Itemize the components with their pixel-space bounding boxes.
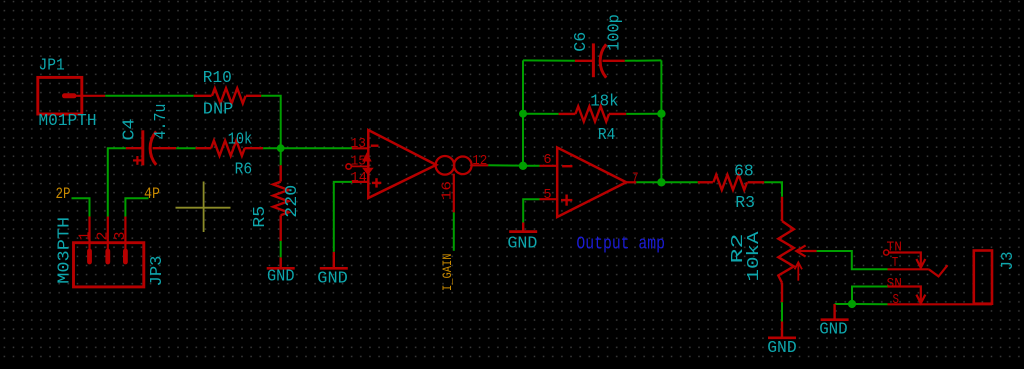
JP3 pin 3 stub	[123, 251, 128, 262]
wire pin16 to I_GAIN	[453, 212, 455, 250]
R2 body zigzag	[778, 221, 794, 283]
svg-text:GND: GND	[317, 269, 348, 288]
node R4 left junction	[519, 110, 527, 118]
R2 up arrow	[797, 265, 799, 281]
svg-text:JP1: JP1	[39, 57, 65, 76]
resistor R3 left lead	[698, 181, 713, 183]
svg-text:15: 15	[351, 154, 366, 170]
resistor R10 body	[212, 88, 246, 103]
wire U1 pin12 to node B	[488, 164, 523, 166]
node A junction	[277, 144, 285, 152]
U1 pin 16 lead	[453, 174, 455, 213]
U1 plus sign	[372, 182, 381, 184]
svg-text:JP3: JP3	[148, 256, 167, 287]
U1 pin 15 bubble	[346, 164, 351, 169]
wire 4P to JP3 pin3	[125, 198, 148, 216]
JP1 pin 1 lead	[74, 95, 105, 97]
wire R3 to R2	[764, 182, 782, 197]
J3 SN line	[888, 287, 921, 301]
resistor R5 top lead	[280, 165, 282, 181]
svg-text:S: S	[893, 293, 900, 308]
svg-text:2: 2	[95, 231, 112, 240]
resistor R6 right lead	[245, 147, 264, 149]
svg-text:10k: 10k	[228, 130, 253, 149]
U2 pin 6 lead	[540, 165, 558, 167]
GND pin R5	[280, 257, 282, 268]
svg-text:GND: GND	[507, 235, 537, 254]
svg-text:GND: GND	[767, 339, 797, 358]
U2 pin 5 lead	[540, 198, 558, 200]
svg-text:12: 12	[472, 153, 487, 169]
U1 minus sign	[371, 144, 379, 146]
svg-text:SN: SN	[887, 277, 902, 292]
op-amp U1 triangle	[368, 130, 436, 198]
GND pin U1+	[333, 252, 335, 268]
svg-text:5: 5	[543, 187, 551, 203]
svg-text:6: 6	[543, 152, 551, 168]
wire R5 to GND	[280, 241, 282, 258]
svg-text:4P: 4P	[144, 185, 160, 203]
svg-text:16: 16	[439, 181, 455, 200]
JP1 pin 1 stub	[65, 93, 75, 98]
svg-text:18k: 18k	[590, 93, 619, 112]
wire JP1 to R10	[105, 95, 194, 97]
svg-text:R3: R3	[735, 194, 755, 213]
svg-text:DNP: DNP	[203, 100, 234, 119]
resistor R4 body	[575, 106, 609, 121]
J3 SN arrowhead	[916, 295, 925, 304]
wire R2 to GND	[781, 302, 783, 321]
ground symbol R5	[267, 267, 295, 270]
capacitor C6 left lead	[575, 60, 594, 62]
wire node C to R3	[661, 181, 697, 183]
JP3 pin 2 stub	[105, 251, 110, 262]
svg-text:GND: GND	[819, 321, 848, 340]
GND pin U2+	[522, 223, 524, 232]
svg-text:4.7u: 4.7u	[152, 104, 171, 140]
wire R6 to node A	[263, 147, 281, 149]
svg-text:3: 3	[112, 231, 129, 240]
svg-text:J3: J3	[999, 252, 1018, 271]
resistor R10 left lead	[194, 95, 212, 97]
svg-text:100p: 100p	[605, 14, 624, 51]
GND pin R2	[781, 322, 783, 338]
wire U2 pin5 to GND	[523, 199, 539, 222]
J3 body rect	[974, 251, 992, 304]
U2 plus sign	[561, 199, 572, 201]
resistor R6 body	[211, 141, 245, 156]
J3 S line	[888, 303, 993, 305]
node R4 right junction	[657, 110, 665, 118]
U1 down arrow	[362, 168, 374, 176]
svg-text:68: 68	[734, 163, 754, 182]
node D junction	[848, 300, 856, 308]
wire C4 row to JP3 pin2	[108, 148, 126, 216]
JP3 pin 1 stub	[87, 251, 92, 262]
wire feedback left vertical	[522, 60, 524, 165]
R2 wiper arrow	[796, 245, 805, 256]
wire R4 right	[626, 113, 661, 115]
svg-text:Output amp: Output amp	[576, 233, 665, 254]
wire R4 left	[523, 113, 559, 115]
wire feedback right vertical	[660, 60, 662, 182]
J3 TN line	[889, 253, 921, 267]
wire R10 right corner	[261, 96, 281, 148]
resistor R10 right lead	[246, 95, 261, 97]
R2 bottom lead	[781, 283, 783, 302]
jumper circle right	[454, 157, 472, 175]
wire S branch	[852, 303, 888, 305]
connector JP3 box	[74, 243, 144, 287]
U1 pin 13 lead	[352, 147, 368, 149]
wire 2P to JP3 pin1	[72, 198, 90, 216]
svg-text:M01PTH: M01PTH	[39, 112, 97, 131]
J3 tip contact	[929, 265, 948, 276]
connector JP1 box	[38, 77, 82, 114]
wire node A to U1 pin13	[281, 147, 352, 149]
svg-text:2P: 2P	[56, 185, 71, 203]
svg-text:C4: C4	[120, 119, 139, 141]
svg-text:R6: R6	[235, 161, 253, 180]
resistor R3 body	[713, 175, 747, 190]
wire GND branch	[835, 303, 852, 305]
svg-text:R4: R4	[598, 126, 616, 145]
U1 pin 12 lead	[472, 164, 489, 166]
svg-text:I_GAIN: I_GAIN	[440, 254, 455, 292]
svg-text:10kA: 10kA	[745, 231, 764, 282]
resistor R6 left lead	[196, 147, 212, 149]
wire U2 pin7 to node C	[636, 181, 661, 183]
svg-text:13: 13	[351, 136, 366, 152]
capacitor C4 right lead	[153, 147, 177, 149]
resistor R4 left lead	[559, 113, 576, 115]
U1 up arrow	[362, 152, 372, 161]
op-amp U2 triangle	[557, 148, 626, 218]
JP3 pin 3 lead	[124, 217, 126, 252]
wire C6 left	[523, 59, 575, 61]
C4 plus sign	[133, 159, 142, 161]
capacitor C4 straight plate	[141, 130, 144, 165]
resistor R5 body	[273, 182, 288, 216]
node B junction	[519, 162, 527, 170]
wire R5 top	[280, 148, 282, 165]
jumper circle left	[436, 156, 455, 175]
svg-text:R10: R10	[203, 69, 232, 88]
U1 pin 15 lead	[352, 165, 369, 167]
ground symbol J3	[821, 318, 849, 321]
wire C6 right	[625, 59, 662, 61]
JP3 pin 2 lead	[107, 217, 109, 252]
U1 pin 14 lead	[352, 181, 368, 183]
R2 top lead	[781, 197, 783, 221]
GND pin J3	[833, 304, 835, 320]
resistor R4 right lead	[609, 113, 626, 115]
U2 minus sign	[562, 165, 572, 167]
resistor R5 bottom lead	[280, 215, 282, 241]
J3 T line	[888, 268, 929, 270]
capacitor C6 right lead	[603, 60, 625, 62]
svg-text:GND: GND	[267, 268, 295, 287]
svg-text:14: 14	[351, 170, 367, 186]
ground symbol R2	[768, 336, 796, 339]
resistor R3 right lead	[748, 181, 765, 183]
svg-text:R5: R5	[251, 206, 270, 228]
capacitor C4 left lead	[126, 147, 143, 149]
wire node B to U2 pin6	[523, 165, 540, 167]
svg-text:M03PTH: M03PTH	[56, 217, 75, 284]
capacitor C4 curved plate	[150, 132, 156, 165]
node C junction	[657, 178, 665, 186]
origin cross	[176, 207, 231, 209]
wire SN branch	[852, 287, 888, 305]
capacitor C6 curved plate	[600, 44, 606, 77]
J3 TN arrowhead	[916, 259, 925, 268]
JP3 pin 1 lead	[88, 217, 90, 252]
ground symbol U2+	[509, 230, 537, 233]
ground symbol U1+	[320, 267, 348, 270]
J3 pin TN circle	[884, 250, 889, 255]
svg-text:1: 1	[76, 231, 93, 240]
U2 pin 7 lead	[626, 181, 636, 183]
capacitor C6 straight plate	[592, 43, 595, 77]
svg-text:C6: C6	[572, 32, 591, 52]
wire wiper to J3 T	[817, 251, 888, 269]
svg-text:220: 220	[283, 185, 302, 218]
wire U1 pin14 to GND	[334, 182, 352, 252]
wire C4 to R6	[176, 147, 196, 149]
svg-text:7: 7	[632, 170, 639, 186]
